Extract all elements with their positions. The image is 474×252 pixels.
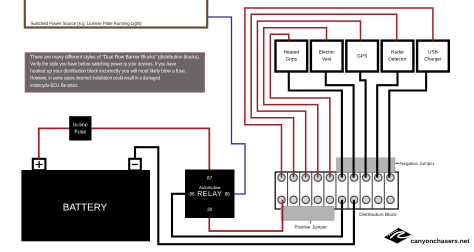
wire blue switched-power to relay 85 <box>207 17 245 194</box>
svg-text:86: 86 <box>189 191 195 197</box>
battery positive terminal <box>33 159 46 170</box>
wire red terminal5 to heated grips <box>270 34 330 177</box>
device box GPS <box>346 41 378 72</box>
wire red relay 30 to distribution block positive <box>209 200 282 231</box>
wire red terminal1 to USB charger <box>245 8 433 178</box>
svg-text:BATTERY: BATTERY <box>63 202 108 213</box>
wire black battery negative <box>135 147 354 244</box>
battery <box>21 170 150 241</box>
svg-text:In-line: In-line <box>73 123 88 129</box>
label negative jumper <box>395 161 435 166</box>
switched power source box <box>25 0 207 28</box>
positive jumper bar <box>281 206 334 220</box>
svg-text:87: 87 <box>207 175 213 181</box>
in-line fuse <box>69 116 91 140</box>
wire black electric vest ground <box>326 72 354 178</box>
battery negative terminal <box>129 159 141 171</box>
device box heated grips <box>276 41 308 72</box>
distribution block terminals bottom row <box>278 196 394 203</box>
wire black heated grips ground <box>289 72 342 178</box>
svg-text:Negative Jumper: Negative Jumper <box>400 161 434 166</box>
svg-text:Distribution Block: Distribution Block <box>359 212 397 217</box>
wire red terminal2 to radar detector <box>251 14 397 177</box>
distribution block body <box>275 172 398 209</box>
device box radar detector <box>382 41 414 72</box>
svg-text:Grips: Grips <box>286 57 298 63</box>
svg-text:hooked up your distribution bl: hooked up your distribution block incorr… <box>30 69 186 75</box>
wire black relay 86 ground <box>172 194 342 237</box>
svg-text:RELAY: RELAY <box>197 191 222 198</box>
svg-text:Automotive: Automotive <box>199 185 221 190</box>
distribution block terminals top row <box>278 174 394 181</box>
svg-text:85: 85 <box>225 191 231 197</box>
wire black USB charger ground <box>389 72 426 178</box>
distribution block column dividers <box>288 173 385 209</box>
svg-text:GPS: GPS <box>357 54 367 60</box>
svg-text:canyonchasers.net: canyonchasers.net <box>411 238 470 245</box>
svg-text:Verify the style you have befo: Verify the style you have before switchi… <box>30 62 176 68</box>
svg-text:USB: USB <box>428 50 438 56</box>
svg-text:Detector: Detector <box>388 57 407 63</box>
svg-text:Heated: Heated <box>284 50 300 56</box>
device box USB charger <box>417 41 449 72</box>
logo canyonchasers emblem <box>384 228 412 244</box>
svg-text:However, in some cases incorre: However, in some cases incorrect install… <box>30 76 160 82</box>
wire red battery+ to fuse to relay 87 <box>39 128 210 169</box>
svg-text:motorcycle ECU. Be smart.: motorcycle ECU. Be smart. <box>30 83 78 89</box>
relay K1 automotive relay <box>185 170 235 219</box>
svg-text:Vest: Vest <box>322 57 332 63</box>
svg-text:30: 30 <box>207 207 213 213</box>
wire red terminal3 to GPS <box>257 21 360 178</box>
label positive jumper <box>294 221 327 230</box>
wire black GPS ground <box>360 72 365 178</box>
svg-text:There are many different style: There are many different styles of “Dual… <box>30 54 200 60</box>
note box <box>25 53 204 92</box>
svg-text:Fuse: Fuse <box>74 130 86 136</box>
wire red terminal4 to electric vest <box>264 28 327 178</box>
svg-text:Electric: Electric <box>319 50 335 56</box>
svg-text:Charger: Charger <box>424 57 442 63</box>
svg-text:Positive Jumper: Positive Jumper <box>294 225 327 230</box>
svg-text:Switched Power Source (e.g. Li: Switched Power Source (e.g. License Plat… <box>31 21 142 27</box>
wire black radar detector ground <box>377 72 397 178</box>
svg-text:Radar: Radar <box>391 50 404 56</box>
device box electric vest <box>311 41 343 72</box>
negative jumper bar <box>337 158 395 172</box>
